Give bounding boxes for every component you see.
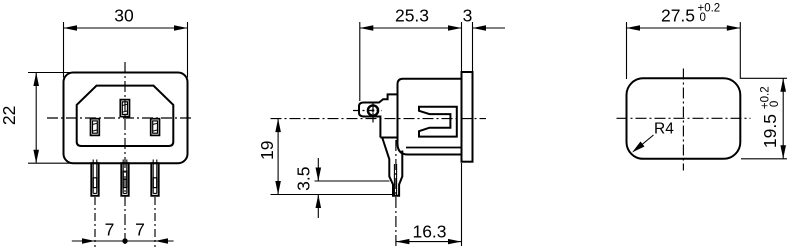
cut-out horizontal centreline bbox=[617, 117, 751, 119]
right solder pin (front view) bbox=[151, 160, 158, 196]
svg-text:0: 0 bbox=[769, 101, 781, 107]
svg-text:R4: R4 bbox=[654, 121, 674, 138]
mounting flange (side view) bbox=[462, 72, 473, 162]
svg-text:3.5: 3.5 bbox=[294, 167, 314, 191]
dimension 16.3 (bottom of side view) bbox=[396, 163, 462, 246]
line pin slot (left) bbox=[91, 119, 100, 136]
front view inlet face recess bbox=[77, 86, 174, 146]
left pin centreline bbox=[94, 197, 96, 247]
dimension 22 (left of front view) bbox=[28, 73, 73, 164]
body bottom interior line bbox=[406, 147, 462, 149]
solder pin (side view) bbox=[382, 138, 402, 196]
dimension 27.5 +0.2/0 (top of cut-out) bbox=[627, 22, 741, 79]
neutral pin slot (right) bbox=[151, 119, 160, 136]
side view pin centreline bbox=[395, 140, 397, 246]
svg-text:7: 7 bbox=[105, 220, 115, 240]
side view horizontal centreline bbox=[271, 118, 487, 120]
front view horizontal centreline bbox=[47, 117, 194, 119]
dimension 7 / 7 (bottom of front view) bbox=[72, 240, 174, 242]
svg-text:7: 7 bbox=[135, 220, 145, 240]
dimension 3 (flange thickness) bbox=[473, 27, 506, 29]
svg-text:19.5: 19.5 bbox=[760, 114, 780, 148]
earth pin slot (top centre) bbox=[120, 100, 129, 117]
cut-out vertical centreline bbox=[682, 69, 684, 171]
svg-text:0: 0 bbox=[700, 12, 706, 24]
svg-text:16.3: 16.3 bbox=[412, 221, 446, 241]
svg-text:3: 3 bbox=[463, 6, 473, 26]
dimension 25.3 (top of side view) bbox=[360, 22, 473, 101]
contact cavity profile (E shape) bbox=[419, 107, 457, 137]
left solder pin (front view) bbox=[91, 160, 98, 196]
svg-text:19: 19 bbox=[257, 141, 277, 160]
earth solder tab hole bbox=[368, 105, 378, 115]
dimension 3.5 (pin tip length) bbox=[315, 158, 390, 218]
right pin centreline bbox=[154, 197, 156, 247]
svg-text:25.3: 25.3 bbox=[395, 6, 429, 26]
dimension 30 (top of front view) bbox=[64, 22, 188, 78]
front view body outline bbox=[64, 73, 188, 164]
panel cut-out outline bbox=[627, 78, 741, 159]
dimension 19 (side view left) bbox=[271, 119, 394, 195]
svg-text:30: 30 bbox=[114, 6, 134, 26]
svg-text:22: 22 bbox=[0, 106, 19, 125]
svg-text:27.5: 27.5 bbox=[661, 6, 695, 26]
side view body outline bbox=[359, 79, 462, 155]
front view vertical centreline bbox=[124, 62, 126, 245]
centre solder pin (front view) bbox=[121, 160, 128, 196]
dimension 19.5 +0.2/0 (right of cut-out) bbox=[741, 78, 787, 159]
